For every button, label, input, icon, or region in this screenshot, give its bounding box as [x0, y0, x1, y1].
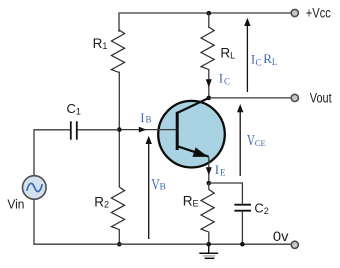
svg-text:CE: CE [255, 138, 266, 148]
wire top rail [119, 13, 295, 32]
wire RL top [208, 13, 210, 28]
svg-text:IB: IB [140, 110, 151, 125]
node R2 bottom rail [117, 242, 122, 247]
svg-text:IE: IE [215, 162, 226, 177]
transistor Q1 [158, 98, 225, 168]
capacitor C2 [234, 205, 251, 211]
svg-text:Vout: Vout [310, 90, 332, 105]
terminal 0v [291, 241, 298, 248]
svg-text:B: B [160, 183, 166, 193]
svg-text:RE: RE [183, 193, 199, 208]
capacitor C1 [71, 121, 77, 139]
current arrow IE [206, 167, 212, 175]
annotation arrow VB [146, 136, 152, 239]
wire RL bottom to Vout node [208, 69, 210, 98]
wire emitter down [208, 157, 210, 184]
svg-text:ICRL: ICRL [251, 51, 278, 67]
current arrow IC [206, 79, 212, 87]
wire Vout [209, 97, 295, 99]
current arrow IB [139, 127, 147, 133]
wire C2 bottom [241, 212, 243, 245]
annotation arrow IC RL [244, 18, 250, 92]
node emitter junction [207, 181, 212, 186]
svg-text:C2: C2 [254, 201, 268, 216]
terminal Vout [291, 94, 298, 101]
wire R1 bottom to base node [118, 72, 120, 131]
svg-text:V: V [247, 132, 255, 149]
resistor R2 [111, 187, 124, 230]
node Vout junction [207, 96, 212, 101]
wire RE bottom [208, 232, 210, 245]
node base junction [117, 127, 122, 132]
svg-text:R1: R1 [93, 36, 108, 51]
wire RE top [208, 183, 210, 190]
node C2 bottom rail [240, 242, 245, 247]
svg-text:C1: C1 [67, 101, 81, 116]
annotation arrow VCE [237, 104, 243, 176]
svg-text:Vin: Vin [7, 196, 24, 211]
terminal +Vcc [291, 9, 298, 16]
resistor R1 [111, 30, 124, 73]
wire C1 right [78, 129, 120, 131]
wire bottom rail [33, 243, 295, 245]
svg-text:R2: R2 [94, 194, 109, 209]
wire emitter node to C2 [209, 183, 243, 204]
ground [199, 244, 218, 258]
wire base node to R2 and R2 to rail [118, 130, 120, 244]
node top rail / RL junction [207, 11, 212, 16]
svg-text:+Vcc: +Vcc [306, 4, 331, 20]
wire Vin bottom [33, 199, 35, 244]
resistor RE [201, 190, 214, 233]
wire C1 left [34, 130, 70, 176]
svg-text:IC: IC [219, 70, 230, 86]
resistor RL [201, 27, 214, 70]
svg-text:RL: RL [220, 45, 235, 60]
node RE bottom rail [206, 242, 211, 247]
svg-text:0v: 0v [273, 229, 289, 244]
wire base [119, 129, 176, 131]
source Vin [23, 176, 47, 200]
